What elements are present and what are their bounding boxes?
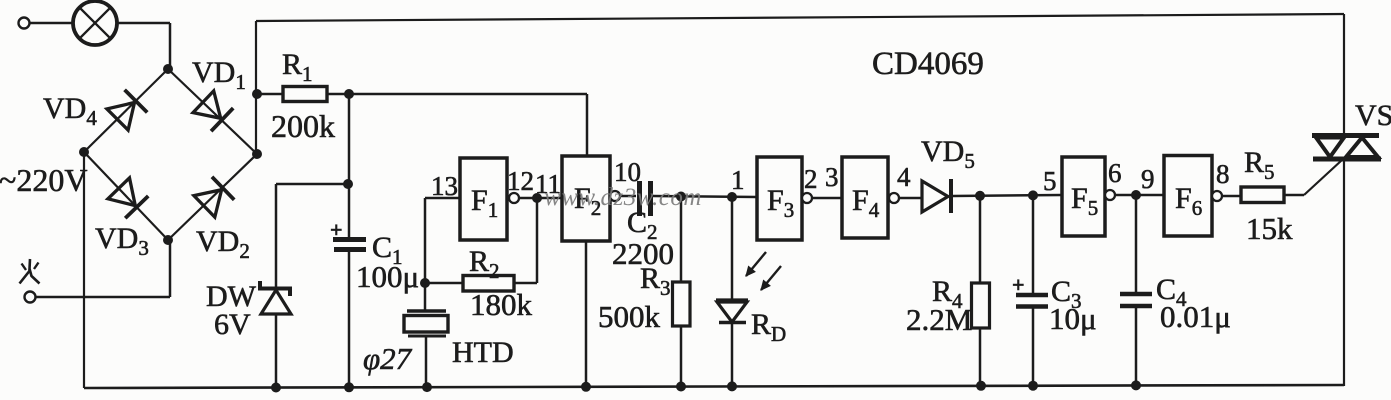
svg-text:φ27: φ27 — [363, 341, 413, 376]
svg-text:VS: VS — [1355, 99, 1391, 132]
svg-text:10μ: 10μ — [1049, 301, 1097, 336]
svg-text:+: + — [330, 217, 343, 242]
svg-text:+: + — [1012, 272, 1025, 297]
svg-text:3: 3 — [825, 162, 839, 192]
svg-text:180k: 180k — [470, 287, 533, 322]
svg-text:2: 2 — [804, 164, 818, 194]
svg-text:200k: 200k — [271, 108, 335, 144]
svg-text:CD4069: CD4069 — [872, 46, 984, 82]
svg-text:5: 5 — [1043, 166, 1057, 196]
svg-text:0.01μ: 0.01μ — [1160, 299, 1231, 334]
svg-text:4: 4 — [897, 162, 911, 192]
svg-text:500k: 500k — [598, 299, 661, 334]
svg-text:www.dz3w.com: www.dz3w.com — [544, 184, 702, 211]
svg-text:15k: 15k — [1246, 211, 1293, 246]
svg-text:13: 13 — [431, 171, 458, 201]
svg-text:9: 9 — [1141, 164, 1155, 194]
svg-text:8: 8 — [1216, 159, 1230, 189]
svg-text:100μ: 100μ — [356, 259, 419, 294]
svg-text:6: 6 — [1108, 158, 1122, 188]
svg-text:10: 10 — [614, 157, 641, 187]
svg-text:2.2M: 2.2M — [906, 302, 972, 337]
svg-text:HTD: HTD — [452, 336, 514, 369]
svg-text:1: 1 — [731, 165, 745, 195]
svg-text:12: 12 — [507, 166, 534, 196]
svg-text:6V: 6V — [214, 308, 251, 341]
svg-text:~220V: ~220V — [0, 162, 87, 198]
